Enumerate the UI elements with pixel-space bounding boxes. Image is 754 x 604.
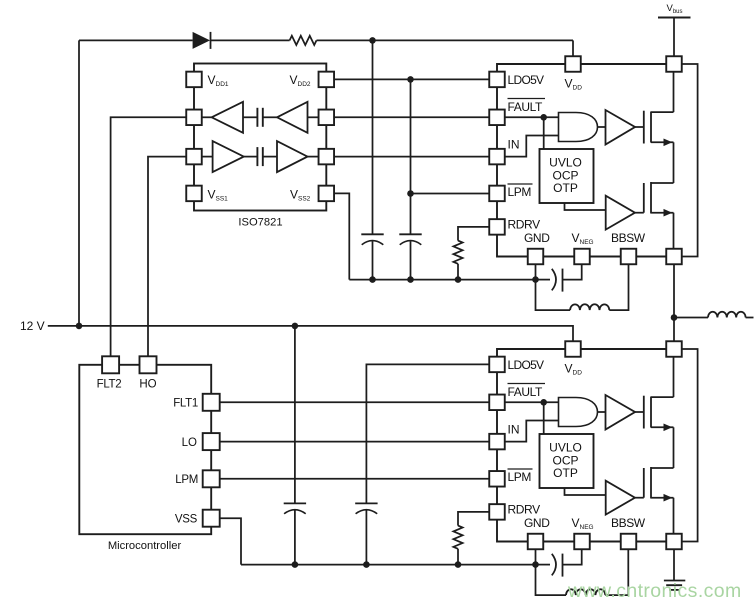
node U3 GND junction [532, 561, 539, 568]
wire U2 GND loop down [536, 280, 571, 311]
label U2 FAULT overline [508, 98, 546, 100]
pin U4 LO [203, 433, 220, 450]
pin U3 bottom-right [666, 534, 682, 550]
resistor R1 [290, 36, 317, 45]
microcontroller U4 body [79, 365, 211, 534]
wire resistor R1 to VDD corner [317, 39, 574, 41]
pin U2 LPM [489, 186, 505, 202]
buffer U2 low-side [606, 196, 635, 230]
wire U3 low buffer to gate [635, 497, 644, 499]
wire U1 chB out to U2 IN [334, 156, 489, 158]
wire VDD2 to U2 LDO5V [334, 78, 489, 80]
node R3 junction on GND rail2 [455, 561, 462, 568]
buffer U2 high-side [606, 110, 636, 145]
node switch junction [671, 314, 678, 321]
node U3 FAULT junction [540, 399, 547, 406]
wire U2 GND pin down [535, 264, 537, 279]
svg-text:LDO5V: LDO5V [508, 73, 545, 87]
wire U3 RDRV to resistor R3 [458, 512, 489, 526]
pin U1 VDD1 [186, 72, 202, 88]
capacitor C2 [399, 233, 421, 235]
wire U2 rail low FET source to bottom pin [673, 213, 675, 249]
pin U4 FLT2 [102, 356, 119, 373]
wire U2 IN pin to AND gate [505, 136, 559, 157]
wire U2 FAULT pin to AND gate [505, 116, 559, 118]
wire U1 chA buffer to barrier [243, 116, 257, 118]
wire U2 external bypass right side [682, 64, 698, 257]
wire 12V rail [48, 326, 573, 341]
capacitor C1 [361, 233, 383, 235]
capacitor isolation barrier chA [256, 108, 258, 127]
wire C5 riser lower [365, 510, 367, 564]
wire GND rail2 [241, 564, 536, 566]
pin U2 BBSW [621, 249, 637, 265]
svg-text:IN: IN [508, 423, 520, 437]
wire U3 bottom-right pin to ground [673, 549, 675, 580]
svg-text:LPM: LPM [508, 185, 532, 199]
pin U2 IN [489, 149, 505, 165]
pin U2 bottom-right [666, 249, 682, 265]
pin U4 VSS [203, 510, 220, 527]
pin U1 channel A side2 [319, 110, 335, 126]
capacitor C6 flat plate [562, 554, 564, 577]
pin U3 GND [528, 534, 544, 550]
wire top corner down to U2 VDD pin [572, 40, 574, 56]
pin U2 FAULT [489, 110, 505, 126]
transistor U2 high-side FET [643, 111, 645, 144]
svg-text:IN: IN [508, 138, 520, 152]
pin U3 top-right [666, 341, 682, 357]
pin U4 HO [140, 356, 157, 373]
svg-text:BBSW: BBSW [611, 231, 646, 245]
svg-text:FLT2: FLT2 [97, 379, 122, 391]
svg-text:GND: GND [524, 231, 550, 245]
wire U2 UVLO out to low buffer [565, 203, 606, 210]
svg-text:VSS: VSS [175, 513, 198, 525]
svg-text:OTP: OTP [553, 466, 578, 480]
wire inductor to edge [746, 317, 754, 319]
transistor U3 low-side FET [643, 468, 645, 498]
diode D1 [193, 32, 210, 49]
label U2 LPM overline [508, 183, 533, 185]
svg-text:www.cntronics.com: www.cntronics.com [567, 580, 742, 602]
label U3 LPM overline [508, 468, 533, 470]
wire R3 to GND rail2 [457, 549, 459, 565]
buffer U1 channel B left [213, 141, 244, 172]
wire C2 node to U2 LPM [411, 193, 490, 195]
svg-text:Microcontroller: Microcontroller [108, 540, 182, 552]
inductor L1 bootstrap [570, 304, 609, 310]
wire U3 GND loop down [536, 565, 567, 596]
pin U1 channel A side1 [186, 110, 202, 126]
wire U1 chA buffer2 to pin [308, 116, 319, 118]
net Vbus bar [658, 17, 691, 19]
wire C2 riser upper [410, 79, 412, 234]
pin U2 VNEG [574, 249, 590, 265]
wire switch node to output inductor [674, 317, 708, 319]
gate driver U2 body (right edge open at FETs) [497, 64, 674, 257]
pin U2 VDD [565, 56, 581, 72]
wire U3 FAULT to UVLO block [543, 402, 545, 434]
wire C6 to U3 VNEG [563, 549, 582, 564]
wire GND node to capacitor C6 [536, 564, 551, 566]
node junction on top wire to C1 [369, 37, 376, 44]
wire GND node to capacitor C3 [536, 279, 551, 281]
capacitor C5 [355, 502, 377, 504]
gate U2 AND [559, 113, 598, 142]
wire R2 to GND rail [457, 264, 459, 280]
wire U3 FAULT pin to AND gate [505, 401, 559, 403]
wire L1 to U2 BBSW [609, 264, 628, 310]
wire U1 chB barrier to buffer2 [263, 156, 277, 158]
buffer U3 high-side [606, 395, 636, 430]
wire U2 low buffer to gate [635, 212, 644, 214]
wire U3 external bypass right side [682, 349, 698, 542]
wire U2 buffer to Qa gate [635, 126, 644, 128]
wire U4 LO to U3 IN [220, 441, 490, 443]
isolator U1 ISO7821 body [194, 64, 326, 211]
svg-text:ISO7821: ISO7821 [238, 217, 282, 229]
wire C4 riser upper [294, 326, 296, 504]
node junction C2 on GND rail [407, 276, 414, 283]
svg-text:LPM: LPM [508, 470, 532, 484]
transistor U3 high-side FET [643, 396, 645, 429]
pin U2 LDO5V [489, 72, 505, 88]
pin U3 FAULT [489, 395, 505, 411]
label U3 FAULT overline [508, 383, 546, 385]
transistor U2 low-side FET [643, 183, 645, 213]
resistor R2 [453, 241, 462, 264]
svg-text:FAULT: FAULT [508, 385, 544, 399]
buffer U1 channel A right [277, 102, 308, 133]
capacitor C3 curved plate [552, 269, 556, 291]
svg-text:LDO5V: LDO5V [508, 358, 545, 372]
svg-text:12 V: 12 V [20, 319, 45, 333]
node junction C1 on GND rail [369, 276, 376, 283]
pin U3 RDRV [489, 504, 505, 520]
gate U3 AND [559, 398, 598, 427]
pin U2 GND [528, 249, 544, 265]
wire U3 buffer to Qc gate [635, 411, 644, 413]
wire diode to resistor R1 [211, 39, 290, 41]
wire U3 IN pin to AND gate [505, 421, 559, 442]
ground symbol [664, 580, 685, 582]
wire U3 rail VDD pin to high FET drain [673, 357, 675, 397]
block U3 UVLO OCP OTP [540, 434, 594, 488]
wire U3 rail low FET source to bottom pin [673, 498, 675, 534]
node U2 GND junction [532, 276, 539, 283]
wire U1 chA barrier to buffer2 [263, 116, 277, 118]
node C4 junction on GND rail2 [292, 561, 299, 568]
wire U4 LPM to U3 LPM [220, 478, 490, 480]
node C5 junction on GND rail2 [363, 561, 370, 568]
wire C2 riser lower [410, 241, 412, 279]
buffer U1 channel A left [212, 102, 243, 133]
capacitor isolation barrier chB [256, 147, 258, 166]
pin U3 LPM [489, 471, 505, 487]
node 12V left junction [76, 323, 83, 330]
wire U1 chB to HO riser [148, 157, 186, 357]
node junction LDO5V row to C2 [407, 76, 414, 83]
block U2 UVLO OCP OTP [540, 149, 594, 203]
wire U4 FLT1 to U3 FAULT [220, 401, 490, 403]
node R2 junction on GND rail [455, 276, 462, 283]
wire U1 chA pin to buffer [202, 116, 212, 118]
pin U3 IN [489, 434, 505, 450]
svg-text:LO: LO [182, 437, 197, 449]
pin U3 VNEG [574, 534, 590, 550]
wire U1 chA out to U2 FAULT [334, 116, 489, 118]
pin U3 BBSW [621, 534, 637, 550]
buffer U1 channel B right [277, 141, 308, 172]
wire C1 riser lower [372, 241, 374, 279]
wire U2 GND rail [349, 279, 535, 281]
wire C1 riser upper [372, 40, 374, 234]
wire U2 rail VDD pin to high FET drain [673, 72, 675, 112]
buffer U3 low-side [606, 481, 635, 515]
wire Vbus to U2 [673, 18, 675, 56]
wire U2 AND out to buffer [598, 126, 606, 128]
wire C3 to U2 VNEG [563, 264, 582, 279]
svg-text:FAULT: FAULT [508, 100, 544, 114]
pin U1 VSS1 [186, 186, 202, 202]
wire U1 chB buffer to barrier [244, 156, 258, 158]
wire L2 to U3 BBSW [605, 549, 628, 595]
wire U2 rail high FET source to low FET drain [673, 142, 675, 183]
wire U1 chB pin to buffer [202, 156, 213, 158]
svg-text:RDRV: RDRV [508, 503, 541, 517]
svg-text:LPM: LPM [175, 474, 198, 486]
capacitor C6 curved plate [552, 554, 556, 576]
wire C4 riser lower [294, 510, 296, 564]
wire U1 chB buffer2 to pin [308, 156, 319, 158]
pin U1 VSS2 [319, 186, 335, 202]
svg-text:RDRV: RDRV [508, 218, 541, 232]
capacitor C3 flat plate [562, 269, 564, 292]
pin U3 LDO5V [489, 357, 505, 373]
pin U1 channel B side2 [319, 149, 335, 165]
wire VSS2 down to GND rail [334, 193, 349, 279]
node U2 FAULT junction [540, 114, 547, 121]
wire U3 UVLO out to low buffer [565, 488, 606, 495]
wire U2 bottom-right pin down to switch node [673, 264, 675, 341]
node 12V junction to C4 [292, 323, 299, 330]
svg-text:HO: HO [139, 379, 156, 391]
wire U2 FAULT to UVLO block [543, 117, 545, 149]
inductor L-out [708, 312, 746, 318]
wire U3 rail high FET source to low FET drain [673, 427, 675, 468]
inductor L2 bootstrap [566, 589, 605, 595]
pin U3 VDD [565, 341, 581, 357]
wire U3 GND pin down [535, 549, 537, 564]
pin U4 FLT1 [203, 394, 220, 411]
svg-text:FLT1: FLT1 [173, 398, 198, 410]
wire left riser 12V [78, 40, 80, 326]
gate driver U3 body (right edge open at FETs) [497, 349, 674, 542]
pin U2 top-right [666, 56, 682, 72]
wire U4 VSS to GND rail2 [220, 518, 241, 564]
node junction on C2 riser at LPM row [407, 190, 414, 197]
pin U1 channel B side1 [186, 149, 202, 165]
wire U2 RDRV to resistor R2 [458, 227, 489, 241]
resistor R3 [453, 526, 462, 549]
pin U4 LPM [203, 470, 220, 487]
pin U2 RDRV [489, 219, 505, 235]
wire 12V top rail from left riser to diode [79, 39, 193, 41]
svg-text:OTP: OTP [553, 181, 578, 195]
wire U3 AND out to buffer [598, 411, 606, 413]
svg-text:BBSW: BBSW [611, 516, 646, 530]
svg-text:GND: GND [524, 516, 550, 530]
capacitor C4 [284, 502, 306, 504]
wire C5 to U3 LDO5V [366, 364, 489, 503]
pin U1 VDD2 [319, 72, 335, 88]
wire U1 chA to FLT2 riser [111, 117, 187, 356]
